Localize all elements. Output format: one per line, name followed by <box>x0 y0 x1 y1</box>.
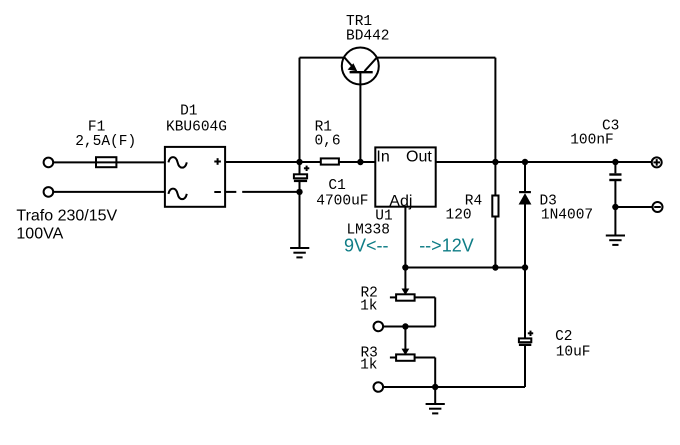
node R2 tap <box>402 323 408 329</box>
svg-text:Out: Out <box>406 149 432 166</box>
bridge rectifier D1 <box>165 147 225 207</box>
svg-text:4700uF: 4700uF <box>316 193 368 209</box>
wire right rail down <box>494 58 496 162</box>
svg-text:Adj: Adj <box>389 193 412 210</box>
node collector / out rail <box>492 159 498 165</box>
svg-text:1k: 1k <box>360 299 377 315</box>
ground below C1 <box>290 248 309 257</box>
ground below bottom rail <box>426 404 445 413</box>
wire bottom rail <box>383 386 525 388</box>
node C3 bottom / minus out <box>612 204 618 210</box>
input terminal bottom <box>44 187 54 197</box>
output plus terminal <box>652 157 662 167</box>
junction dots <box>296 159 618 390</box>
wire adj rail <box>405 267 525 269</box>
svg-text:10uF: 10uF <box>556 344 591 360</box>
svg-text:1N4007: 1N4007 <box>541 208 593 224</box>
potentiometer R2 <box>390 268 435 327</box>
node C1 bottom / minus <box>296 189 302 195</box>
svg-text:120: 120 <box>446 208 472 224</box>
svg-text:1k: 1k <box>360 357 377 373</box>
svg-text:9V<--: 9V<-- <box>344 236 389 256</box>
node ground bottom rail <box>432 384 438 390</box>
wire minus continues <box>242 191 299 193</box>
wire top input to fuse <box>53 161 96 163</box>
svg-text:100VA: 100VA <box>16 226 63 243</box>
svg-text:2,5A(F): 2,5A(F) <box>75 134 136 150</box>
svg-text:100nF: 100nF <box>570 133 614 149</box>
svg-text:D1: D1 <box>180 104 197 120</box>
capacitor C3 <box>609 162 621 207</box>
fuse F1 <box>96 157 116 167</box>
op-amp style box U1 LM338 <box>375 147 435 206</box>
node rect plus / C1 top <box>296 159 302 165</box>
wire bridge plus output to node A <box>225 161 299 163</box>
resistor R1 <box>321 158 339 164</box>
node C3 top <box>612 159 618 165</box>
capacitor C1 <box>294 162 309 248</box>
wire fuse to bridge <box>116 161 164 163</box>
potentiometer R3 <box>390 327 435 388</box>
bottom terminal <box>374 382 384 392</box>
node base / R1 out <box>357 159 363 165</box>
wire U1 Out to plus terminal <box>436 161 652 163</box>
svg-text:KBU604G: KBU604G <box>166 120 227 136</box>
wire left rail up <box>299 58 301 162</box>
wire ground stem <box>434 387 436 404</box>
transistor TR1 <box>342 48 379 85</box>
wire transistor base down <box>359 72 361 162</box>
capacitor C2 <box>519 268 533 388</box>
wire C3 bottom to minus terminal <box>615 206 652 208</box>
output minus terminal <box>653 202 663 212</box>
node adj <box>402 264 408 270</box>
svg-text:Trafo 230/15V: Trafo 230/15V <box>16 208 117 225</box>
node D3 bottom / C2 top <box>522 264 528 270</box>
node D3 top <box>522 159 528 165</box>
svg-text:-->12V: -->12V <box>419 236 474 256</box>
svg-text:F1: F1 <box>88 119 105 135</box>
svg-text:C2: C2 <box>555 329 572 345</box>
svg-text:C1: C1 <box>328 178 345 194</box>
terminal wiper tap <box>374 322 384 332</box>
wire bottom input to bridge <box>53 191 164 193</box>
svg-text:BD442: BD442 <box>346 28 390 44</box>
ground below C3 <box>606 236 625 245</box>
diode D3 <box>519 162 532 268</box>
wire R1 to U1 In <box>339 161 375 163</box>
resistor R4 <box>492 162 498 268</box>
wire node A to R1 <box>300 161 321 163</box>
wire terminal to node <box>383 326 405 328</box>
wire top rail to transistor <box>300 57 345 59</box>
wire bridge minus output (with gap) <box>225 191 236 193</box>
U1 Adj pin wire <box>404 207 406 268</box>
input terminal top <box>44 158 54 168</box>
wire collector to right rail <box>377 57 496 59</box>
svg-text:0,6: 0,6 <box>314 134 340 150</box>
node R4 bottom <box>492 264 498 270</box>
wire C3 node to ground <box>614 207 616 236</box>
svg-text:In: In <box>376 149 389 166</box>
